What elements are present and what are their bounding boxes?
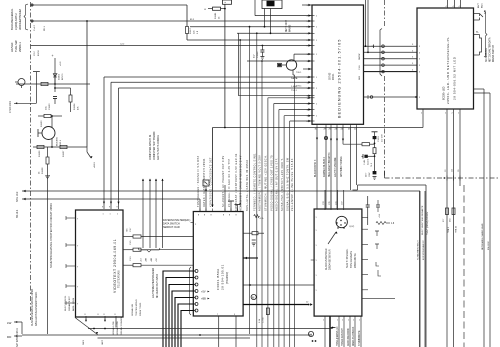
svg-text:VIDEO-SIGNAL / CVBS OUT 1VSS 7: VIDEO-SIGNAL / CVBS OUT 1VSS 75 [271, 155, 274, 211]
wire bundle 6 [181, 311, 195, 347]
svg-text:4: 4 [195, 298, 196, 300]
svg-text:KONTRAST / CONTRAST 0-5V GER.3: KONTRAST / CONTRAST 0-5V GER.31 [235, 153, 238, 211]
svg-text:4: 4 [446, 6, 447, 8]
bracket right of U2 [484, 11, 487, 57]
svg-text:SIGNAL LOW: SIGNAL LOW [112, 321, 115, 335]
wire U4 bottom pin [218, 316, 220, 347]
wire x367.7 down [367, 215, 369, 225]
wire stair down 3 [279, 109, 312, 111]
tie small a [375, 230, 379, 232]
svg-text:8: 8 [98, 314, 99, 316]
connector bracket S13 [380, 29, 382, 77]
svg-text:1: 1 [316, 290, 317, 292]
wire pin43 down [350, 127, 352, 191]
wire branch left y156 [366, 155, 375, 157]
U4 right stub y233 [243, 232, 252, 234]
junction diode base [54, 83, 56, 85]
wire R1103 down [186, 34, 188, 41]
wire U1-U2 link 5 [364, 71, 418, 73]
svg-text:SIGNAL SW: SIGNAL SW [131, 303, 134, 316]
tie top x374.5 [372, 131, 378, 133]
brace supply [138, 248, 160, 252]
wire U2 top pin b [454, 0, 456, 8]
capacitor C1110 polarized [373, 136, 377, 139]
chassis dash-dot vertical mid [384, 0, 386, 28]
wire stair 15.6 [254, 0, 256, 16]
svg-text:SIGNAL HIGH: SIGNAL HIGH [116, 321, 119, 335]
svg-text:S97/65: S97/65 [330, 72, 332, 80]
connector X1 mains [262, 0, 282, 9]
svg-text:29504-057.80 NUR: 29504-057.80 NUR [329, 249, 332, 270]
junction x224.9 y127 [224, 127, 226, 129]
svg-text:SPG 10.2: SPG 10.2 [16, 191, 19, 202]
wire supply up 1 [142, 179, 144, 248]
wire long bus y335.5 [98, 337, 251, 339]
wire U2 right down a [474, 88, 485, 90]
wire box corner x357 [357, 185, 359, 190]
arrow U1 pin y45.5 [308, 44, 311, 46]
wire right vert x419.5 [419, 191, 421, 347]
wire long bus y327 [88, 328, 333, 330]
wire stair down 1 [268, 97, 312, 99]
wire vertical x224.9 [224, 4, 226, 127]
svg-text:SW.1: SW.1 [83, 339, 85, 345]
transistor T1151 [18, 79, 25, 86]
svg-text:WIED./PLAYBACK: WIED./PLAYBACK [352, 326, 355, 346]
wire T1051 emitter [292, 70, 294, 75]
wire box right x420 [419, 191, 421, 347]
wire vertical x240.2 [239, 40, 241, 207]
wire X1 left pin [264, 9, 266, 27]
diode D1151 [54, 62, 56, 84]
wire vertical x87 [86, 21, 88, 147]
wire supply up 4 [162, 179, 164, 248]
wire U5 top pins [324, 190, 326, 210]
tie bar x231 [228, 200, 234, 202]
wire bus y21 [31, 20, 313, 22]
svg-text:ABSTIMMSPG. / TUNING VOLT 0-28: ABSTIMMSPG. / TUNING VOLT 0-28V [259, 155, 262, 211]
svg-text:ABGL. 29504: ABGL. 29504 [72, 297, 75, 311]
svg-text:COMPUTER TEST BOARD: COMPUTER TEST BOARD [153, 131, 156, 160]
svg-text:TONTEIL MONO: TONTEIL MONO [136, 299, 138, 316]
wire pin20 down [356, 127, 358, 186]
svg-text:BC548 B: BC548 B [57, 137, 59, 146]
wire T1152 emitter [51, 139, 53, 148]
U2 right stub 2 [474, 19, 480, 21]
wire U4 right y304 thick [243, 304, 309, 306]
wire right vert x425 [424, 191, 426, 347]
svg-text:+: + [52, 54, 54, 58]
svg-text:HELLIGKEIT / BRIGHTNESS DC 2-4: HELLIGKEIT / BRIGHTNESS DC 2-4V [240, 155, 243, 211]
svg-text:HF/VHF: HF/VHF [10, 42, 14, 52]
svg-text:4: 4 [195, 285, 196, 287]
svg-text:ZEILENIMP. / LINE PULSE H 15.6: ZEILENIMP. / LINE PULSE H 15.6K [291, 158, 294, 211]
svg-text:+BB: +BB [151, 257, 153, 262]
U5 left tick y260 [311, 259, 314, 261]
svg-text:B1.50: B1.50 [38, 50, 40, 56]
svg-text:NETZKABEL / MAINS LEAD: NETZKABEL / MAINS LEAD [481, 223, 484, 250]
wire pin26 down [330, 127, 332, 211]
svg-text:MAINS SWITCH: MAINS SWITCH [492, 45, 495, 62]
svg-text:1: 1 [316, 54, 317, 56]
svg-text:E/A 220V: E/A 220V [487, 241, 490, 250]
wire U1 pin y69 stub [303, 68, 312, 70]
wire x55 seg [54, 74, 56, 92]
svg-text:GRUEN 3 GN/WS: GRUEN 3 GN/WS [121, 317, 123, 335]
arrow to DIN [328, 232, 336, 244]
transistor T1051 [286, 60, 296, 70]
svg-text:SIGNAL B/G-L 5.5 MHZ TONTR. SW: SIGNAL B/G-L 5.5 MHZ TONTR. SW [286, 157, 289, 211]
wire U1 right y97 [364, 96, 418, 98]
wire U1-U2 link 4 [364, 64, 418, 66]
svg-text:KOP.ST/ZUFUHR ST: KOP.ST/ZUFUHR ST [423, 240, 425, 260]
connector circles S13 [382, 45, 385, 48]
svg-text:D1151: D1151 [59, 73, 61, 80]
wire stair x238.5 [238, 33, 240, 95]
svg-text:AUFN./RECORD: AUFN./RECORD [347, 328, 350, 346]
wire U1 pin5 stub [302, 4, 312, 6]
resistor R1156 [37, 145, 44, 148]
wire route B to U3 [111, 81, 312, 83]
svg-text:C(07): C(07) [349, 226, 355, 228]
svg-text:4: 4 [195, 278, 196, 280]
wire supply up 2 [149, 179, 151, 248]
chassis dash-dot boundary left [30, 2, 32, 320]
svg-text:HELLIGKEIT/BRIGHTN.: HELLIGKEIT/BRIGHTN. [329, 152, 331, 177]
component base contact [278, 63, 282, 67]
svg-text:TON GERAETE: TON GERAETE [350, 251, 353, 268]
svg-text:LAUTSPRECHER/SPEAKER: LAUTSPRECHER/SPEAKER [152, 268, 155, 298]
junction y304 [308, 304, 310, 306]
svg-text:LW: LW [7, 321, 11, 325]
svg-text:+5V: +5V [156, 258, 158, 262]
wire U4 bottom pin2 [235, 316, 237, 347]
svg-text:3: 3 [419, 46, 420, 48]
wire U5 bottom thick [329, 317, 331, 347]
wire pin30 down [316, 127, 318, 211]
svg-text:C6: C6 [458, 170, 460, 172]
U2 right stub 1 [474, 13, 480, 15]
svg-text:3: 3 [419, 59, 420, 61]
junction y147 x52 [51, 146, 53, 148]
switch TL contact [480, 35, 482, 56]
wire vertical x262 [261, 61, 263, 347]
svg-text:TON-R AUS/OUT: TON-R AUS/OUT [341, 327, 344, 346]
op-amp U5 AUDIO block [314, 209, 362, 316]
svg-text:B0.10.2: B0.10.2 [16, 209, 19, 218]
wire U2 top pin c [460, 0, 462, 8]
svg-text:2: 2 [452, 113, 453, 115]
svg-text:(TDA4500): (TDA4500) [226, 272, 229, 284]
svg-text:STUMM/MUTE: STUMM/MUTE [359, 330, 361, 346]
svg-text:1: 1 [316, 77, 317, 79]
capacitor C1108 [262, 45, 264, 47]
svg-text:C.751: C.751 [263, 317, 265, 323]
svg-text:R1158: R1158 [42, 167, 44, 174]
svg-text:R11.2: R11.2 [190, 28, 192, 34]
svg-text:4: 4 [459, 6, 460, 8]
resistor R right2 [133, 248, 141, 251]
svg-text:C02/: C02/ [369, 172, 371, 177]
svg-text:T14+T (29504) 5/2000V: T14+T (29504) 5/2000V [427, 211, 429, 235]
wire U3 bottom pin a [85, 316, 87, 321]
wire U1-U2 link 1 [364, 45, 418, 47]
resistor R751 [266, 308, 269, 315]
svg-text:LAUTST./VOLUME: LAUTST./VOLUME [334, 157, 337, 177]
wire U3 bottom pin b [104, 316, 106, 321]
wire bus y40 [187, 39, 312, 41]
junction bus y334 [199, 334, 201, 336]
svg-text:BEDIENUNG 29504-001.57/65: BEDIENUNG 29504-001.57/65 [338, 38, 342, 118]
svg-text:BA21: BA21 [481, 3, 484, 8]
arrow U1 pin y21 [308, 20, 311, 22]
svg-text:SMTW: SMTW [359, 54, 361, 60]
transistor T1152 [42, 127, 55, 140]
wire bus y5 [31, 4, 188, 6]
op-amp U2 LED-Netzanzeige block [417, 8, 474, 109]
connector LW [14, 321, 22, 323]
svg-text:BUS-LEITG. / DATA BUS IM 29504: BUS-LEITG. / DATA BUS IM 29504 [246, 159, 249, 211]
svg-text:9: 9 [234, 314, 235, 316]
op-amp U4 FERNSEHTON block [193, 212, 243, 317]
hook ends near box3 [376, 262, 379, 266]
U2 right stub 4 [474, 54, 480, 56]
svg-text:C2.2: C2.2 [34, 51, 36, 56]
svg-text:BCD/B+ LED: BCD/B+ LED [444, 86, 446, 100]
tie bar x237.5 [235, 204, 241, 206]
U4 connector bracket [190, 267, 192, 315]
wire bus y45.5 [31, 45, 313, 47]
capacitor C1153 [53, 96, 57, 98]
svg-text:R1181: R1181 [215, 12, 217, 19]
svg-text:4: 4 [195, 304, 196, 306]
wire pin28 down [325, 127, 327, 211]
switch S15 contact [480, 14, 484, 18]
node circle bus y21 [31, 20, 33, 22]
wire T1152 collector [51, 116, 53, 127]
svg-text:SCHALTSP. / SWITCH +12V NUR T.: SCHALTSP. / SWITCH +12V NUR T. [281, 158, 284, 211]
resistor R right1 [133, 235, 141, 238]
svg-text:STUMMSCH. / MUTING +12V GESCH.: STUMMSCH. / MUTING +12V GESCH. [265, 155, 268, 211]
wire pin41 branch [343, 143, 362, 145]
wire U3 bottom pin c [115, 316, 117, 328]
svg-text:FERNBED. / REMOTE CONTROL EING: FERNBED. / REMOTE CONTROL EING. [254, 152, 257, 211]
wire sense y191 [22, 190, 420, 192]
svg-text:BZX79: BZX79 [62, 73, 64, 80]
wire stair down 5 [290, 120, 312, 122]
resistor R1158 vertical [46, 157, 49, 164]
capacitor gnd mid [252, 239, 256, 241]
svg-text:C2: C2 [445, 170, 447, 172]
svg-text:2: 2 [458, 113, 459, 115]
wire drop x187 [186, 5, 188, 27]
wire U2 bottom pin1 long [446, 109, 448, 347]
svg-text:ABGLEICH/ALIGNMENT SERV.: ABGLEICH/ALIGNMENT SERV. [35, 291, 38, 326]
svg-text:GERAETE MIT: GERAETE MIT [68, 296, 71, 311]
circle symbol N [308, 331, 313, 336]
svg-text:TPA 1: TPA 1 [447, 226, 450, 233]
svg-text:BA77: BA77 [477, 3, 480, 8]
svg-text:TUV.1: TUV.1 [296, 86, 302, 88]
svg-text:29504-1: 29504-1 [18, 42, 22, 52]
svg-text:1: 1 [316, 16, 317, 18]
svg-text:1: 1 [316, 104, 317, 106]
svg-text:F6001 B50A: F6001 B50A [216, 268, 220, 290]
wire U1-U2 link 2 [364, 51, 418, 53]
svg-text:F6001: F6001 [333, 73, 335, 80]
resistor R1101 horizontal [213, 7, 221, 10]
wire y199 drop to U4 [199, 199, 201, 211]
wire protection vertical x47.5 [47, 179, 49, 334]
svg-text:C NO GND: C NO GND [9, 101, 12, 113]
svg-text:3: 3 [419, 97, 420, 99]
junction x374.5 y143 [374, 143, 376, 145]
U1 left pin ticks [312, 4, 315, 6]
svg-text:AUDIO-SIGNAL / AF OUT 0.5V EFF: AUDIO-SIGNAL / AF OUT 0.5V EFF. [276, 158, 279, 212]
arrow into U4 right y258 [243, 257, 258, 259]
svg-text:4: 4 [195, 311, 196, 313]
wire stair down 2 [274, 103, 312, 105]
svg-text:NUR T.0531 GL: NUR T.0531 GL [65, 295, 67, 311]
resistor R177 on x447 [446, 208, 449, 215]
resistor R right3 [133, 264, 141, 267]
junction x87 y21 [86, 20, 88, 22]
junction y26.7 [249, 26, 251, 28]
wire stair down 4 [284, 115, 312, 117]
svg-text:1: 1 [316, 40, 317, 42]
svg-text:BUCHSE/AERIAL: BUCHSE/AERIAL [10, 8, 14, 30]
tie on pin y327 [330, 327, 336, 329]
svg-text:R1153: R1153 [41, 120, 43, 127]
svg-text:300OHM/75OHM: 300OHM/75OHM [18, 8, 22, 30]
U1 bottom pin ticks [316, 124, 318, 126]
wire U5 bottom pins [324, 317, 326, 347]
wire route A to U3 [104, 76, 312, 78]
svg-text:PE.1: PE.1 [44, 25, 46, 31]
wire U4 top x206 [205, 190, 207, 211]
component box top X2 [223, 0, 232, 4]
svg-text:2: 2 [445, 113, 446, 115]
connector square symbol [203, 180, 209, 186]
wire U1-U2 link 3 [364, 58, 418, 60]
wire link x55-x70 [55, 87, 71, 89]
capacitor C on x367.7 [366, 204, 370, 206]
svg-text:1: 1 [316, 275, 317, 277]
wire y26.7 bus [190, 26, 312, 28]
wire box left edge x212.5 [212, 128, 214, 208]
arrow +B diagonal [86, 147, 88, 152]
wire vertical x294.5 [294, 75, 296, 347]
resistor R1117 [362, 143, 370, 146]
U2 right stub 3 [474, 34, 480, 36]
svg-text:FARBE/COLOUR 2: FARBE/COLOUR 2 [323, 156, 326, 177]
dash-dot horizontal border [385, 177, 500, 179]
wire X1 right pin [270, 9, 272, 34]
svg-text:29 504-105.01: 29 504-105.01 [221, 264, 225, 290]
svg-text:AGFTA TESTS CONFIG: AGFTA TESTS CONFIG [157, 135, 160, 160]
wire long bus y334 [22, 334, 312, 336]
svg-text:SCHALTNETZTEIL T: SCHALTNETZTEIL T [417, 240, 420, 260]
svg-text:1: 1 [110, 214, 111, 216]
svg-text:1: 1 [316, 116, 317, 118]
junction dots bottom [312, 340, 314, 342]
svg-text:1: 1 [316, 217, 317, 219]
wire pin24 down [336, 127, 338, 211]
svg-text:NF./AUDIO OUT 29504: NF./AUDIO OUT 29504 [156, 273, 159, 298]
svg-text:C(300) ANT.U: C(300) ANT.U [14, 13, 18, 30]
svg-text:29504-057.81: 29504-057.81 [354, 253, 357, 268]
capacitor small C71 [376, 204, 380, 206]
svg-text:TONTRAEGER / SOUND IF 5.5 MHZ: TONTRAEGER / SOUND IF 5.5 MHZ [197, 155, 200, 207]
wire U2 right down b [474, 92, 491, 94]
junction R1101 x224.9 [224, 8, 226, 10]
svg-text:1: 1 [316, 260, 317, 262]
svg-text:GN/T: GN/T [102, 339, 104, 345]
brace antenna input [24, 4, 28, 30]
wire bundle 5 [178, 304, 195, 347]
svg-text:ABSTIMM./TUNING: ABSTIMM./TUNING [340, 156, 343, 177]
U4 top pin stubs [199, 209, 201, 212]
svg-text:3: 3 [419, 72, 420, 74]
svg-text:1: 1 [316, 88, 317, 90]
U4 left tick y222 [191, 222, 194, 224]
svg-text:1: 1 [316, 245, 317, 247]
svg-text:M15.1: M15.1 [60, 139, 62, 146]
svg-text:R1157: R1157 [63, 150, 65, 157]
svg-text:2: 2 [421, 113, 422, 115]
node circle bus y5 [31, 4, 33, 6]
svg-text:VIDEOTEXT 29504-049.01: VIDEOTEXT 29504-049.01 [113, 239, 117, 293]
junction y33.3 [256, 32, 258, 34]
svg-text:+B1.9: +B1.9 [94, 161, 96, 168]
wire bundle thick [163, 271, 195, 347]
svg-text:N: N [310, 332, 312, 336]
wire U2 top pin a [447, 0, 449, 8]
wire vertical x256.8 [256, 33, 258, 347]
svg-text:1: 1 [103, 214, 104, 216]
svg-text:8: 8 [85, 314, 86, 316]
wire supply up 3 [155, 179, 157, 248]
svg-text:C1153: C1153 [49, 103, 51, 110]
svg-text:R1156: R1156 [39, 150, 41, 157]
pin ticks on y178 border [446, 176, 448, 181]
svg-text:3: 3 [419, 52, 420, 54]
svg-text:+5V: +5V [201, 291, 206, 294]
svg-text:C1.10: C1.10 [378, 136, 380, 142]
tie mark link1 [373, 45, 375, 49]
svg-text:1: 1 [316, 27, 317, 29]
svg-text:TPA 10: TPA 10 [455, 225, 458, 233]
svg-text:+: + [204, 7, 206, 11]
svg-text:KUNDENSERVICE-MODUL 29504: KUNDENSERVICE-MODUL 29504 [31, 288, 34, 326]
svg-text:SAT 29504-143.01: SAT 29504-143.01 [16, 327, 19, 347]
socket DIN connector [336, 216, 347, 227]
U5 right stubs [362, 216, 368, 218]
wire box top y185 [358, 184, 427, 186]
wire U2 bottom to bus127 [422, 109, 424, 128]
wire y61 bus [247, 60, 312, 62]
svg-text:4: 4 [453, 6, 454, 8]
resistor R1157 [60, 145, 67, 148]
node pin28 circle [324, 136, 327, 139]
arrow left y191 [23, 190, 26, 192]
wire y33.3 bus [237, 32, 312, 34]
svg-text:NETZ 220V: NETZ 220V [286, 20, 288, 32]
wire U3 diagonal [75, 318, 98, 335]
wire T1051 collector [293, 54, 295, 61]
svg-text:TV6.1: TV6.1 [296, 72, 302, 74]
wire R1118 down [374, 154, 376, 172]
